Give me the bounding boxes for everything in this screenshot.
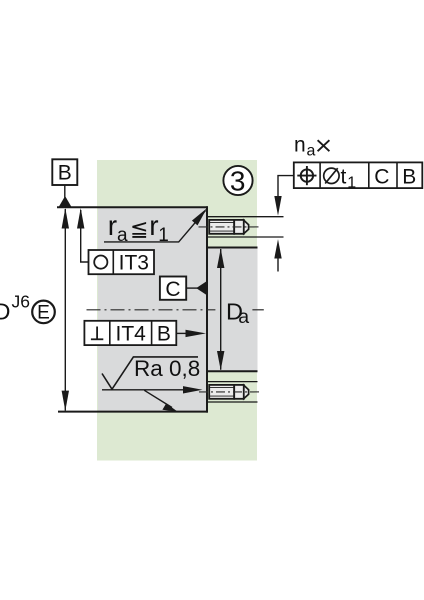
- label D J6 E: [0, 292, 55, 325]
- dimension D line: [64, 209, 66, 411]
- svg-text:Ra 0,8: Ra 0,8: [134, 356, 200, 381]
- roughness leader arrow: [183, 386, 203, 393]
- roughness branch leader: [144, 390, 172, 407]
- note ra <= r1: [108, 210, 169, 246]
- roundness leader: [81, 210, 89, 262]
- grub screw upper: body: [209, 220, 248, 234]
- svg-text:n: n: [294, 133, 306, 156]
- roughness branch arrow: [162, 403, 177, 411]
- callout circle 3: [223, 166, 252, 197]
- svg-text:IT3: IT3: [119, 252, 149, 275]
- position tolerance frame: [294, 162, 423, 191]
- t1 lower arrow: [274, 239, 281, 258]
- part bottom edge / extension line: [58, 411, 208, 413]
- housing block (gray cross-section): [98, 207, 207, 411]
- svg-text:a: a: [238, 306, 249, 328]
- datum C leader: [186, 287, 198, 289]
- note ra leader: [104, 211, 206, 242]
- svg-text:B: B: [58, 162, 72, 185]
- svg-text:C: C: [374, 165, 389, 188]
- svg-text:a: a: [307, 142, 316, 159]
- datum B box: [52, 159, 77, 185]
- position leader: [278, 176, 294, 197]
- svg-text:B: B: [402, 165, 416, 188]
- svg-text:≦: ≦: [130, 216, 148, 241]
- dimension D upper arrow: [62, 208, 69, 229]
- svg-text:1: 1: [347, 175, 356, 192]
- lower hole bottom edge: [207, 401, 258, 403]
- bore surface line: [206, 206, 208, 412]
- main centerline: [87, 309, 216, 311]
- t1 lower arrow shaft: [277, 256, 279, 272]
- grub screw lower centerline: [199, 391, 261, 393]
- grub screw upper centerline: [199, 226, 262, 228]
- datum B triangle: [59, 196, 71, 207]
- svg-text:3: 3: [230, 166, 246, 197]
- bearing silhouette (green background): [97, 160, 257, 461]
- svg-text:B: B: [157, 322, 171, 345]
- svg-text:D: D: [0, 299, 10, 325]
- upper shoulder edge: [207, 247, 258, 249]
- roughness leader: [102, 389, 186, 391]
- svg-text:J6: J6: [12, 292, 30, 312]
- dimension D lower arrow: [62, 391, 69, 411]
- datum C triangle: [196, 282, 206, 295]
- shaft tongue (gray, dia Da): [207, 248, 258, 372]
- perpendicularity leader: [176, 332, 187, 334]
- note ra leader arrow: [192, 208, 207, 225]
- datum B stem: [64, 185, 66, 198]
- svg-text:C: C: [165, 278, 180, 301]
- upper hole bottom edge / t1 extension: [207, 236, 284, 238]
- datum C box: [160, 277, 186, 302]
- lower hole top edge: [207, 381, 258, 383]
- roughness symbol Ra 0,8: [102, 356, 200, 389]
- svg-text:E: E: [37, 303, 50, 324]
- dimension Da line: [220, 249, 222, 370]
- perpendicularity leader arrow: [186, 330, 207, 337]
- svg-text:r: r: [149, 210, 158, 241]
- svg-text:r: r: [108, 210, 117, 241]
- roundness leader arrow: [77, 208, 84, 229]
- grub screw lower: body: [209, 385, 248, 399]
- upper hole top edge / t1 extension: [207, 216, 284, 218]
- part top edge / extension line: [57, 206, 208, 208]
- dimension Da upper arrow: [217, 249, 224, 269]
- perpendicularity tolerance frame: [84, 321, 176, 346]
- svg-text:t: t: [341, 165, 347, 188]
- label Da: [226, 298, 249, 328]
- svg-text:1: 1: [158, 225, 169, 246]
- label na x: [294, 133, 329, 159]
- dimension Da lower arrow: [217, 351, 224, 370]
- svg-text:a: a: [117, 225, 128, 246]
- svg-text:IT4: IT4: [116, 322, 147, 345]
- position leader arrow / t1 upper arrow: [274, 196, 281, 216]
- lower shoulder edge: [207, 370, 258, 372]
- roundness tolerance frame: [89, 250, 155, 275]
